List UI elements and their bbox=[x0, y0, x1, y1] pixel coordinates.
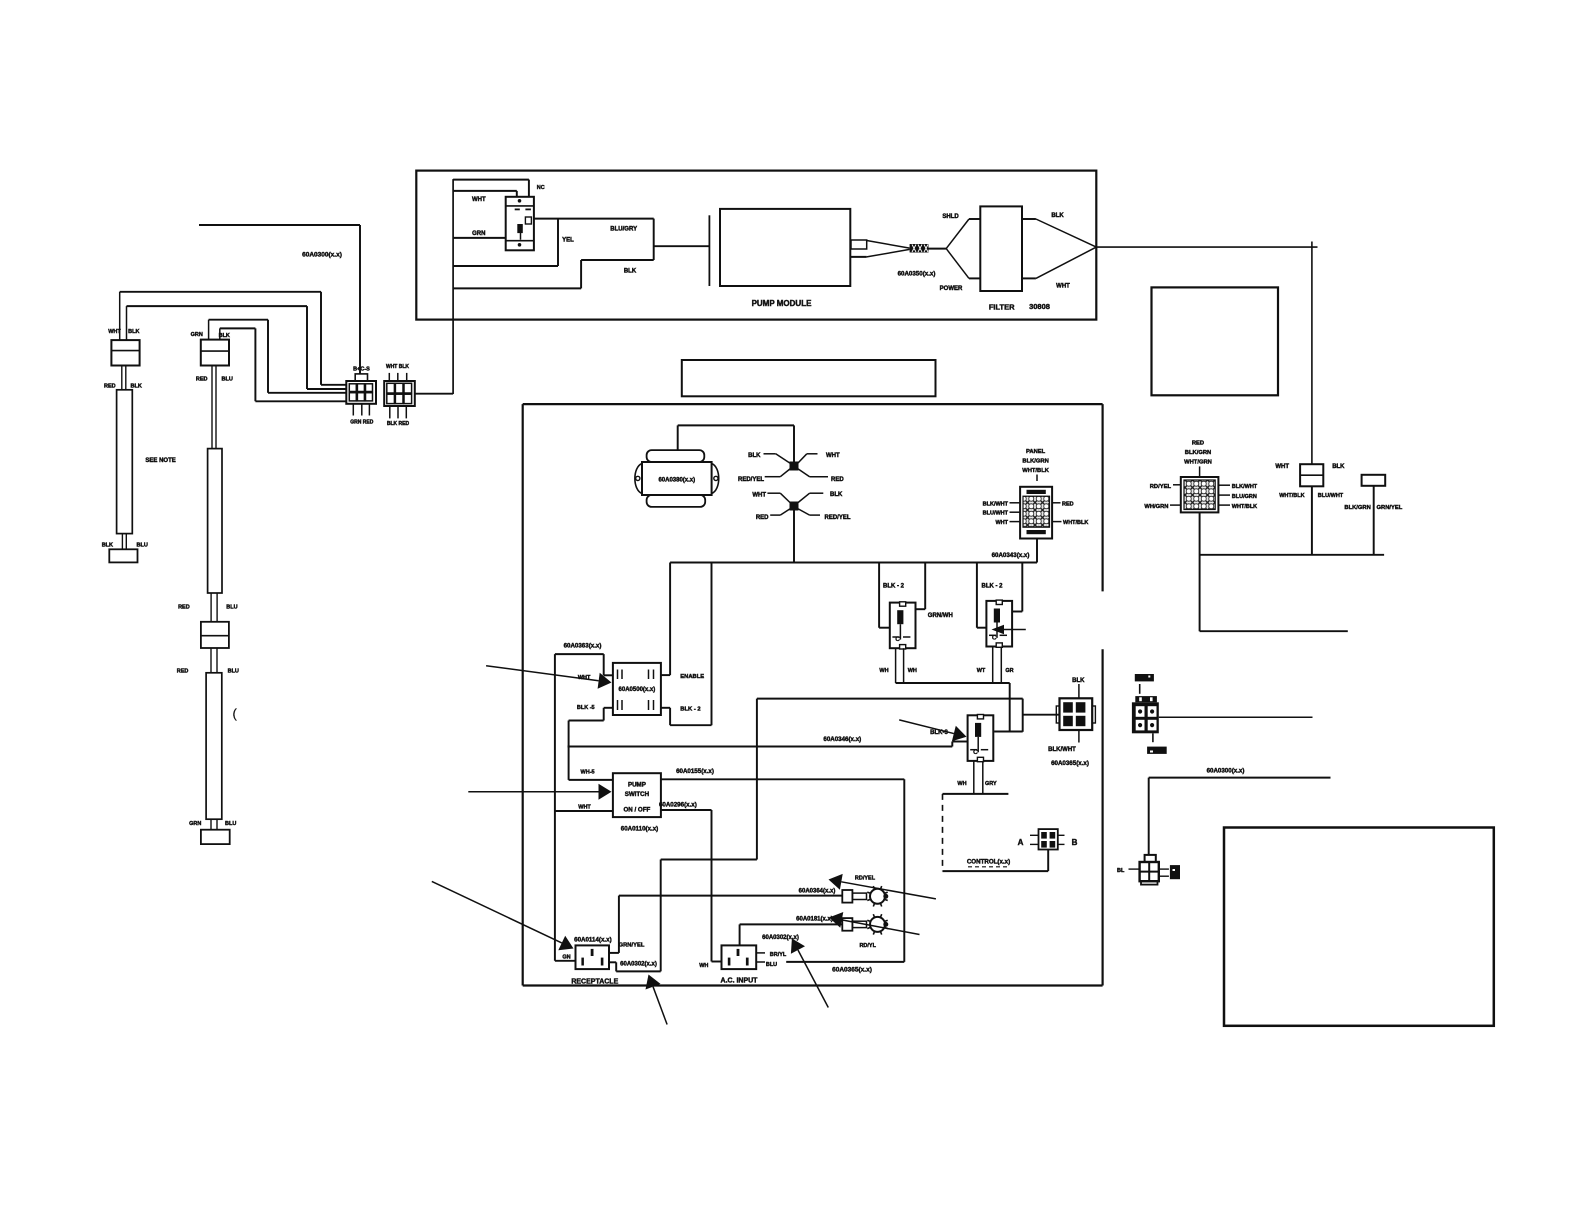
svg-text:GN: GN bbox=[562, 955, 570, 961]
svg-text:BLK: BLK bbox=[624, 269, 637, 275]
svg-text:BLU/WHT: BLU/WHT bbox=[983, 511, 1009, 517]
svg-text:FILTER: FILTER bbox=[989, 303, 1015, 312]
svg-text:BLK: BLK bbox=[1072, 678, 1085, 684]
svg-text:GRN RED: GRN RED bbox=[350, 420, 373, 426]
svg-text:(: ( bbox=[233, 706, 238, 721]
svg-text:GRN/YEL: GRN/YEL bbox=[1377, 505, 1403, 511]
svg-text:BL: BL bbox=[1117, 868, 1125, 874]
svg-text:BLU: BLU bbox=[137, 543, 148, 549]
svg-text:BLK - 2: BLK - 2 bbox=[680, 707, 700, 713]
svg-text:BLU: BLU bbox=[228, 669, 239, 675]
svg-text:A: A bbox=[1018, 838, 1024, 847]
svg-text:RED: RED bbox=[177, 669, 189, 675]
svg-text:WH: WH bbox=[699, 963, 708, 969]
svg-text:GRN: GRN bbox=[472, 231, 485, 237]
svg-text:BLK - 2: BLK - 2 bbox=[982, 584, 1004, 590]
svg-text:60A0155(x.x): 60A0155(x.x) bbox=[676, 768, 714, 775]
svg-text:B+C-S: B+C-S bbox=[353, 367, 370, 373]
svg-text:CONTROL(x.x): CONTROL(x.x) bbox=[967, 859, 1010, 866]
svg-text:GRN: GRN bbox=[189, 821, 201, 827]
svg-text:RED: RED bbox=[196, 377, 208, 383]
svg-text:RED/YEL: RED/YEL bbox=[825, 515, 851, 521]
svg-text:YEL: YEL bbox=[562, 238, 574, 244]
svg-text:60A0296(x.x): 60A0296(x.x) bbox=[659, 802, 697, 809]
svg-text:RECEPTACLE: RECEPTACLE bbox=[571, 979, 618, 986]
svg-text:GRN/YEL: GRN/YEL bbox=[619, 943, 645, 949]
svg-text:BLK/WHT: BLK/WHT bbox=[983, 501, 1009, 507]
svg-text:BLK: BLK bbox=[748, 453, 761, 459]
svg-text:RED: RED bbox=[104, 384, 116, 390]
svg-text:BLK: BLK bbox=[102, 543, 113, 549]
svg-text:WHT: WHT bbox=[995, 520, 1008, 526]
svg-text:60A0343(x.x): 60A0343(x.x) bbox=[992, 552, 1030, 559]
svg-text:PUMP MODULE: PUMP MODULE bbox=[752, 299, 813, 308]
svg-text:BLK RED: BLK RED bbox=[387, 421, 410, 427]
svg-text:WHT BLK: WHT BLK bbox=[386, 364, 409, 370]
svg-text:WHT: WHT bbox=[472, 197, 486, 203]
svg-text:WHT: WHT bbox=[108, 329, 121, 335]
svg-text:WHT: WHT bbox=[1056, 284, 1070, 290]
svg-text:SHLD: SHLD bbox=[942, 214, 959, 220]
svg-text:BLU: BLU bbox=[225, 821, 236, 827]
svg-text:ENABLE: ENABLE bbox=[680, 674, 704, 680]
svg-text:BLK: BLK bbox=[1332, 464, 1345, 470]
svg-text:60A0346(x.x): 60A0346(x.x) bbox=[823, 736, 861, 743]
svg-text:NC: NC bbox=[537, 185, 545, 191]
svg-text:RED: RED bbox=[756, 515, 769, 521]
svg-text:BLK -5: BLK -5 bbox=[577, 705, 595, 711]
svg-text:60A0363(x.x): 60A0363(x.x) bbox=[564, 643, 602, 650]
svg-text:BLK: BLK bbox=[128, 329, 139, 335]
svg-text:BLU: BLU bbox=[766, 962, 777, 968]
svg-text:WH: WH bbox=[908, 668, 917, 674]
svg-text:BLU: BLU bbox=[226, 605, 237, 611]
svg-text:RD/YEL: RD/YEL bbox=[1150, 484, 1172, 490]
svg-text:WHT/BLK: WHT/BLK bbox=[1063, 520, 1088, 526]
svg-text:60A0181(x.x): 60A0181(x.x) bbox=[796, 917, 833, 923]
svg-text:RD/YEL: RD/YEL bbox=[855, 876, 876, 882]
svg-text:WH: WH bbox=[957, 781, 966, 787]
svg-text:BLK/WHT: BLK/WHT bbox=[1048, 747, 1076, 753]
svg-text:60A0110(x.x): 60A0110(x.x) bbox=[621, 826, 659, 833]
svg-text:SEE NOTE: SEE NOTE bbox=[145, 458, 175, 464]
svg-text:60A0365(x.x): 60A0365(x.x) bbox=[1051, 760, 1089, 767]
svg-text:GRY: GRY bbox=[985, 781, 997, 787]
svg-text:WHT: WHT bbox=[752, 493, 766, 499]
svg-text:BLK/GRN: BLK/GRN bbox=[1185, 450, 1211, 456]
svg-text:BLU: BLU bbox=[222, 377, 233, 383]
svg-text:60A0365(x.x): 60A0365(x.x) bbox=[832, 967, 872, 974]
svg-text:RED: RED bbox=[1062, 501, 1074, 507]
svg-text:BLK - 2: BLK - 2 bbox=[883, 584, 905, 590]
svg-text:BLK: BLK bbox=[219, 333, 230, 339]
svg-text:A.C. INPUT: A.C. INPUT bbox=[721, 978, 759, 985]
svg-text:WH-5: WH-5 bbox=[581, 770, 595, 776]
svg-text:SWITCH: SWITCH bbox=[625, 791, 650, 798]
svg-text:GRN: GRN bbox=[191, 332, 203, 338]
svg-text:WHT: WHT bbox=[826, 453, 840, 459]
svg-text:RED: RED bbox=[831, 477, 844, 483]
svg-text:30808: 30808 bbox=[1029, 302, 1050, 311]
svg-text:WHT/BLK: WHT/BLK bbox=[1232, 504, 1257, 510]
svg-text:60A0350(x.x): 60A0350(x.x) bbox=[898, 271, 936, 278]
svg-text:WHT: WHT bbox=[1275, 464, 1289, 470]
svg-text:WHT/BLK: WHT/BLK bbox=[1022, 468, 1050, 474]
svg-text:WH: WH bbox=[879, 668, 888, 674]
svg-text:PUMP: PUMP bbox=[628, 782, 646, 789]
svg-text:60A0364(x.x): 60A0364(x.x) bbox=[799, 889, 836, 895]
svg-text:POWER: POWER bbox=[940, 286, 963, 292]
svg-text:ON / OFF: ON / OFF bbox=[623, 807, 650, 814]
svg-text:BLK-3: BLK-3 bbox=[930, 730, 948, 736]
svg-text:60A0380(x.x): 60A0380(x.x) bbox=[658, 478, 695, 484]
svg-text:RED: RED bbox=[1192, 441, 1204, 447]
svg-text:RED/YEL: RED/YEL bbox=[738, 477, 764, 483]
svg-text:GR: GR bbox=[1005, 668, 1013, 674]
svg-text:PANEL: PANEL bbox=[1026, 449, 1046, 455]
svg-text:BR/YL: BR/YL bbox=[770, 952, 787, 958]
svg-text:WT: WT bbox=[977, 668, 986, 674]
svg-text:RD/YL: RD/YL bbox=[859, 943, 876, 949]
svg-text:B: B bbox=[1072, 838, 1078, 847]
svg-text:60A0302(x.x): 60A0302(x.x) bbox=[620, 962, 657, 968]
svg-text:WH/GRN: WH/GRN bbox=[1144, 504, 1168, 510]
svg-text:60A0300(x.x): 60A0300(x.x) bbox=[1207, 768, 1245, 775]
svg-text:RED: RED bbox=[178, 605, 190, 611]
svg-text:BLK: BLK bbox=[131, 384, 142, 390]
svg-text:BLK/WHT: BLK/WHT bbox=[1232, 484, 1258, 490]
svg-text:BLU/GRN: BLU/GRN bbox=[1232, 494, 1257, 500]
svg-text:WHT: WHT bbox=[578, 805, 591, 811]
svg-text:BLU/WHT: BLU/WHT bbox=[1318, 493, 1344, 499]
svg-text:GRN/WH: GRN/WH bbox=[928, 613, 953, 619]
svg-text:60A0500(x.x): 60A0500(x.x) bbox=[619, 687, 656, 693]
svg-text:WHT/BLK: WHT/BLK bbox=[1279, 493, 1304, 499]
svg-text:60A0114(x.x): 60A0114(x.x) bbox=[574, 937, 612, 944]
svg-text:BLK/GRN: BLK/GRN bbox=[1344, 505, 1370, 511]
svg-text:60A0300(x.x): 60A0300(x.x) bbox=[302, 252, 342, 259]
svg-text:BLK: BLK bbox=[830, 492, 843, 498]
svg-text:BLK: BLK bbox=[1051, 213, 1064, 219]
svg-text:BLK/GRN: BLK/GRN bbox=[1022, 459, 1048, 465]
svg-text:BLU/GRY: BLU/GRY bbox=[610, 227, 637, 233]
svg-text:WHT/GRN: WHT/GRN bbox=[1184, 460, 1212, 466]
